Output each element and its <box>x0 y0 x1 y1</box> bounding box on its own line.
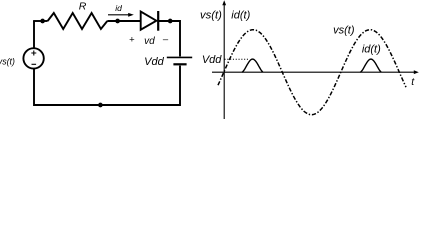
wire source to top-left corner <box>33 21 35 48</box>
battery Vdd plate short (negative) <box>173 63 186 65</box>
svg-text:Vdd: Vdd <box>202 54 222 66</box>
wire top-left horizontal <box>33 20 48 22</box>
resistor R1 zigzag <box>48 13 108 29</box>
diode D1 cathode bar <box>157 11 159 31</box>
current arrow id <box>108 13 134 17</box>
node C dot (after diode) <box>168 19 173 24</box>
graph t-axis arrowhead <box>414 70 419 74</box>
svg-text:id: id <box>115 3 122 13</box>
svg-text:vs(t): vs(t) <box>200 10 222 22</box>
svg-text:R: R <box>79 1 87 13</box>
svg-text:+: + <box>129 35 135 46</box>
wire bottom-left <box>34 69 100 105</box>
svg-text:–: – <box>163 34 169 45</box>
graph y-axis arrowhead <box>222 0 226 5</box>
dotted Vdd level line <box>225 58 249 60</box>
wire resistor to diode <box>107 20 140 22</box>
sine curve vs(t) dashed <box>218 30 406 115</box>
id pulse 1 <box>242 59 263 72</box>
diode D1 triangle <box>141 12 157 30</box>
battery Vdd plate long (positive) <box>167 56 192 58</box>
source VS circle <box>23 48 43 68</box>
svg-text:t: t <box>411 76 415 88</box>
source VS plus sign <box>31 51 36 56</box>
svg-text:vs(t): vs(t) <box>333 24 355 36</box>
svg-text:vd: vd <box>144 36 155 47</box>
svg-text:vs(t): vs(t) <box>0 57 15 67</box>
node A dot (top left) <box>40 19 45 24</box>
node D dot (bottom middle) <box>98 103 103 108</box>
wire diode to top-right corner and down <box>158 21 180 56</box>
graph t-axis <box>212 71 415 73</box>
graph y-axis <box>223 4 225 120</box>
svg-text:Vdd: Vdd <box>144 56 164 68</box>
svg-text:id(t): id(t) <box>362 44 381 56</box>
source VS minus sign <box>32 63 37 65</box>
wire battery to bottom-right corner <box>100 66 180 105</box>
id pulse 2 <box>360 59 381 72</box>
node B dot (after resistor) <box>115 19 120 24</box>
svg-text:id(t): id(t) <box>231 10 250 22</box>
